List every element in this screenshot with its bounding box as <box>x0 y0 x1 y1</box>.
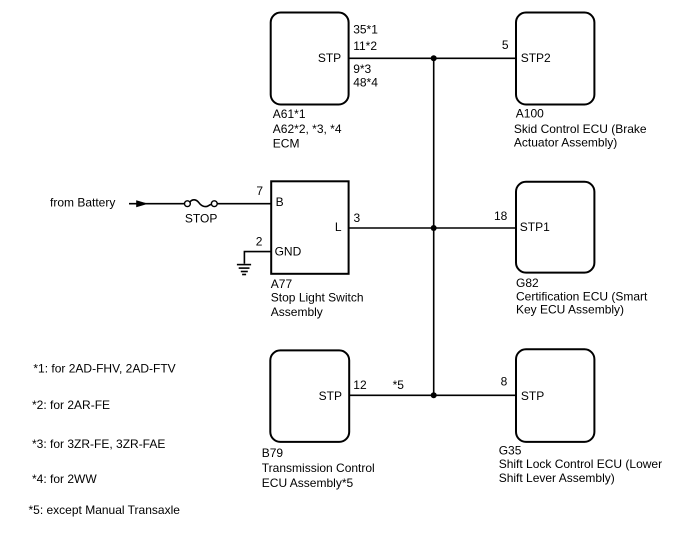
svg-text:48*4: 48*4 <box>353 75 378 89</box>
svg-text:G35: G35 <box>499 443 522 457</box>
svg-text:STP: STP <box>319 389 342 403</box>
svg-text:12: 12 <box>353 378 367 392</box>
svg-text:9*3: 9*3 <box>353 62 371 76</box>
svg-text:Skid Control ECU (Brake: Skid Control ECU (Brake <box>514 122 647 136</box>
svg-text:*5: except Manual Transaxle: *5: except Manual Transaxle <box>29 503 181 517</box>
svg-text:3: 3 <box>354 211 361 225</box>
svg-text:Shift Lock Control ECU (Lower: Shift Lock Control ECU (Lower <box>499 457 662 471</box>
svg-text:G82: G82 <box>516 276 539 290</box>
svg-text:STP: STP <box>318 51 341 65</box>
svg-text:18: 18 <box>494 209 508 223</box>
svg-text:Key ECU Assembly): Key ECU Assembly) <box>516 303 624 317</box>
svg-text:A77: A77 <box>271 277 293 291</box>
svg-text:*2: for 2AR-FE: *2: for 2AR-FE <box>32 398 110 412</box>
svg-text:ECU Assembly*5: ECU Assembly*5 <box>262 476 354 490</box>
svg-text:GND: GND <box>275 245 302 259</box>
svg-text:*3: for 3ZR-FE, 3ZR-FAE: *3: for 3ZR-FE, 3ZR-FAE <box>32 437 165 451</box>
svg-text:35*1: 35*1 <box>353 22 378 36</box>
svg-text:Stop Light Switch: Stop Light Switch <box>271 291 364 305</box>
svg-text:B: B <box>276 195 284 209</box>
svg-text:*5: *5 <box>393 378 405 392</box>
svg-text:L: L <box>335 220 342 234</box>
svg-text:7: 7 <box>256 184 263 198</box>
svg-text:A62*2, *3, *4: A62*2, *3, *4 <box>273 122 342 136</box>
svg-text:Certification ECU (Smart: Certification ECU (Smart <box>516 289 648 303</box>
svg-text:Actuator Assembly): Actuator Assembly) <box>514 136 617 150</box>
svg-text:Transmission Control: Transmission Control <box>262 461 375 475</box>
svg-text:Shift Lever Assembly): Shift Lever Assembly) <box>499 471 615 485</box>
svg-text:STP1: STP1 <box>520 220 550 234</box>
svg-text:A61*1: A61*1 <box>273 107 306 121</box>
svg-text:from Battery: from Battery <box>50 195 115 209</box>
svg-text:11*2: 11*2 <box>353 39 377 53</box>
svg-text:*1: for 2AD-FHV, 2AD-FTV: *1: for 2AD-FHV, 2AD-FTV <box>33 361 175 375</box>
svg-text:STP: STP <box>521 389 544 403</box>
svg-text:5: 5 <box>502 38 509 52</box>
svg-text:B79: B79 <box>262 446 284 460</box>
svg-text:A100: A100 <box>516 106 544 120</box>
svg-text:STP2: STP2 <box>521 51 551 65</box>
svg-text:2: 2 <box>256 234 263 248</box>
svg-text:ECM: ECM <box>273 137 300 151</box>
svg-text:8: 8 <box>501 375 508 389</box>
svg-text:STOP: STOP <box>185 212 217 226</box>
svg-text:Assembly: Assembly <box>271 305 323 319</box>
svg-text:*4: for 2WW: *4: for 2WW <box>32 472 97 486</box>
